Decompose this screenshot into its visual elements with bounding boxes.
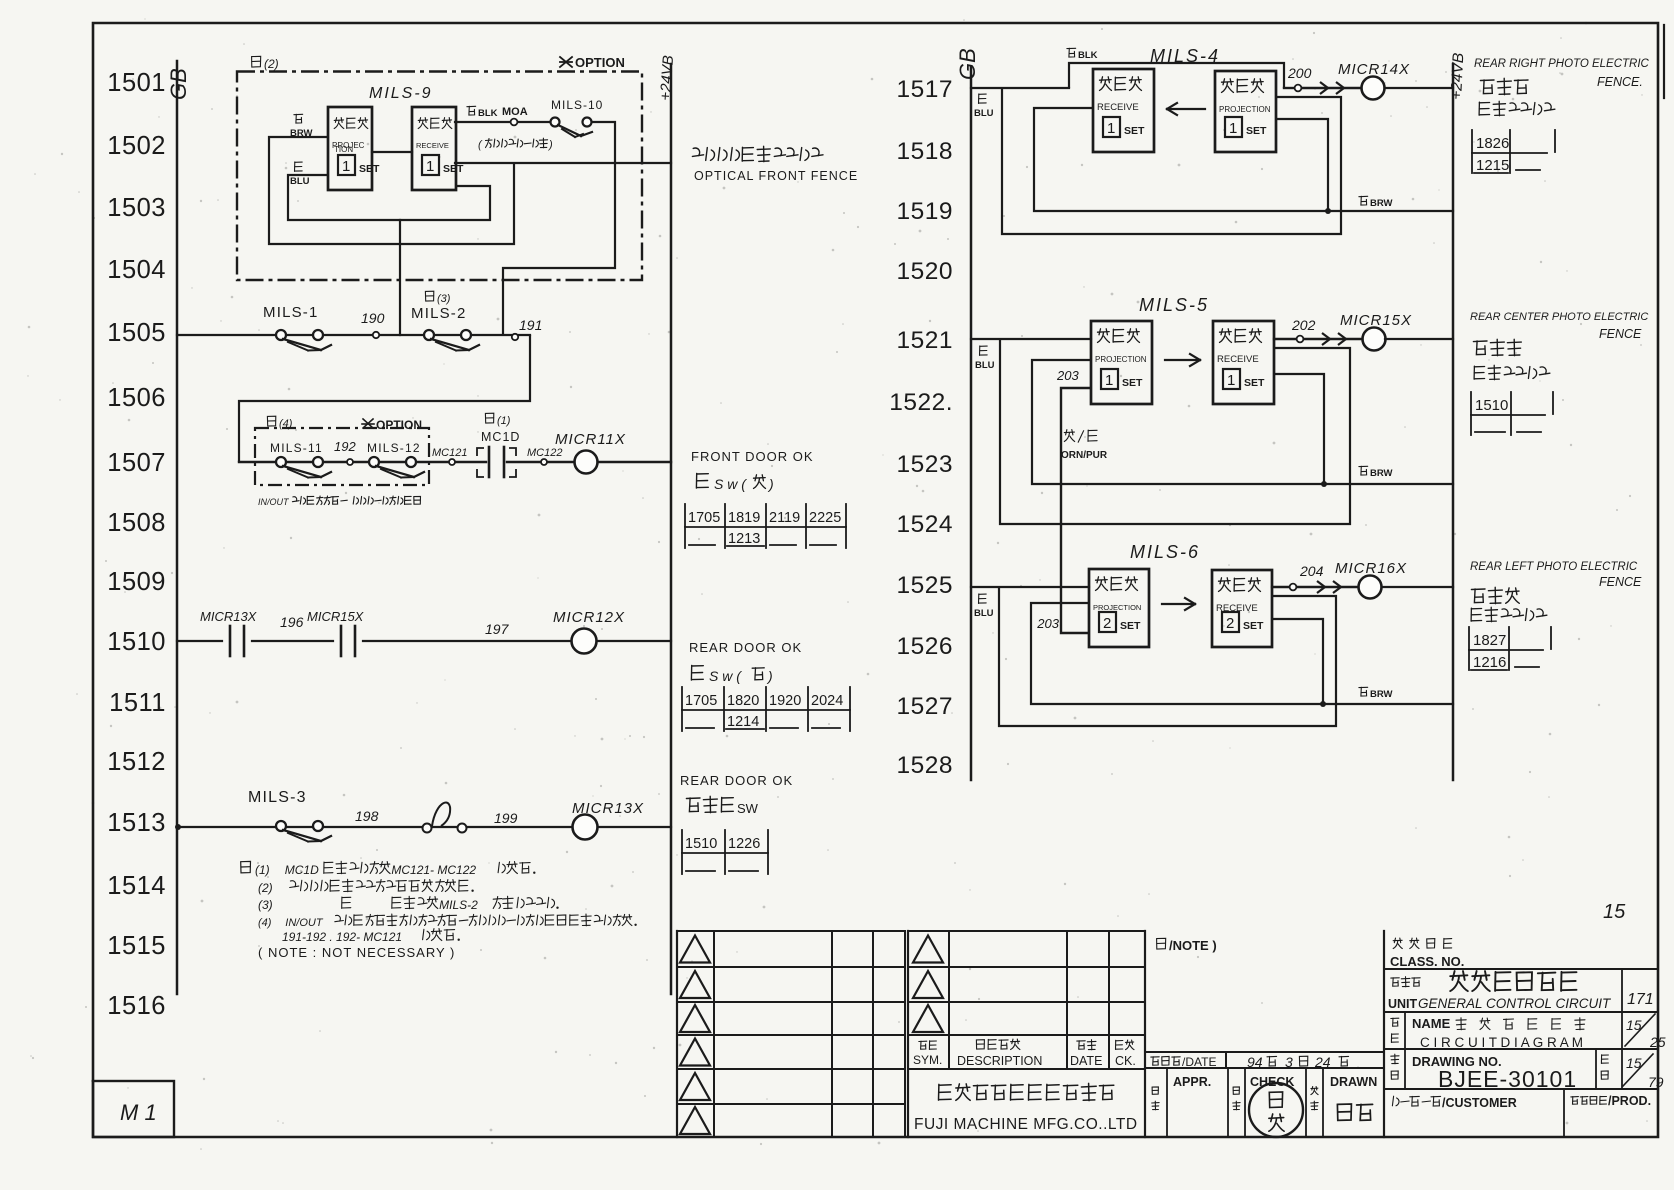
svg-text:FENCE: FENCE [1599, 575, 1642, 589]
header SYM [913, 1041, 942, 1067]
limit switch MILS-3 [248, 789, 331, 842]
svg-text:SET: SET [1124, 125, 1145, 137]
svg-text:1518: 1518 [896, 138, 953, 165]
svg-text:1705: 1705 [685, 693, 717, 709]
relay coil MICR13X [572, 800, 644, 840]
row label 1513 [107, 809, 166, 837]
revision table left [677, 931, 905, 1137]
svg-text:FENCE: FENCE [1599, 327, 1642, 341]
cross reference table rear door 2 [682, 830, 768, 874]
svg-text:APPR.: APPR. [1173, 1075, 1211, 1089]
svg-text:1510: 1510 [685, 836, 717, 852]
svg-text:190: 190 [361, 310, 385, 326]
wire rung 1505 to rung 1507 [239, 335, 530, 462]
relay coil MICR15X [1340, 312, 1412, 351]
node 200 [1287, 65, 1312, 91]
note line 4 [258, 914, 637, 929]
svg-text:1502: 1502 [107, 132, 166, 160]
svg-text:(1): (1) [255, 863, 270, 877]
row label 1528 [896, 752, 953, 779]
svg-text:197: 197 [485, 621, 510, 637]
svg-text:BRW: BRW [1370, 198, 1393, 209]
svg-text:(4): (4) [279, 418, 293, 430]
power rail +24VB left [657, 55, 677, 994]
note label 注(2) [252, 56, 279, 71]
svg-text:BLK: BLK [1078, 50, 1098, 61]
note line 5 [282, 929, 460, 944]
svg-text:1705: 1705 [688, 510, 720, 526]
wire BLK receive to MILS-10 [455, 121, 550, 123]
node 203 MILS-5 [1056, 368, 1079, 383]
wire coil MICR14X to +24VB [1385, 87, 1453, 89]
svg-text:(3): (3) [437, 293, 451, 305]
svg-text:1819: 1819 [728, 510, 760, 526]
svg-text:FUJI MACHINE MFG.CO..LTD: FUJI MACHINE MFG.CO..LTD [914, 1116, 1138, 1133]
svg-text:1508: 1508 [107, 509, 166, 537]
wire inner loop MILS-5 [1032, 360, 1324, 484]
wire MILS-10 down to node 191 [503, 122, 615, 335]
wire label 青BLU MILS-4 [974, 94, 994, 119]
ground rail GB left [166, 61, 191, 994]
net label rear right photo electric fence [1474, 58, 1650, 116]
svg-text:PROJECTION: PROJECTION [1095, 355, 1147, 364]
cross reference table front door [685, 504, 846, 548]
svg-text:1827: 1827 [1473, 632, 1506, 649]
svg-text:DATE: DATE [1070, 1054, 1102, 1068]
wire label 黒BLK [467, 106, 498, 119]
svg-text:BRW: BRW [1370, 689, 1393, 700]
svg-text:BRW: BRW [1370, 468, 1393, 479]
wire BLU loop [288, 175, 490, 220]
sensor unit label MILS-9 [369, 85, 433, 102]
note label actuator [478, 138, 553, 151]
ground rail GB right [955, 48, 980, 780]
svg-text:25: 25 [1649, 1034, 1666, 1050]
svg-text:MILS-5: MILS-5 [1139, 295, 1209, 315]
svg-text:PROJECTION: PROJECTION [1093, 603, 1141, 612]
svg-text:MC1D: MC1D [481, 430, 520, 444]
sensor unit label MILS-5 [1139, 295, 1209, 315]
svg-text:/CUSTOMER: /CUSTOMER [1442, 1096, 1517, 1110]
svg-text:C I R C U I T D I A G R A M: C I R C U I T D I A G R A M [1420, 1035, 1583, 1050]
svg-text:1215: 1215 [1476, 157, 1509, 174]
header CK [1115, 1040, 1136, 1068]
svg-text:1519: 1519 [896, 198, 953, 225]
node 190 [361, 310, 385, 338]
node 196 [280, 614, 304, 630]
svg-text:MILS-10: MILS-10 [551, 98, 603, 112]
svg-text:( NOTE : NOT NECESSARY ): ( NOTE : NOT NECESSARY ) [258, 945, 455, 960]
svg-text:S w (: S w ( [714, 476, 747, 492]
svg-text:BLU: BLU [975, 360, 995, 371]
svg-text:1514: 1514 [107, 872, 166, 900]
svg-text:1503: 1503 [107, 194, 166, 222]
note cell 注/NOTE [1157, 938, 1217, 953]
limit switch MILS-10 [551, 98, 604, 137]
svg-text:1504: 1504 [107, 256, 166, 284]
svg-text:MC121- MC122: MC121- MC122 [391, 863, 476, 877]
svg-text:SET: SET [359, 163, 380, 175]
svg-text:1515: 1515 [107, 932, 166, 960]
svg-text:BLU: BLU [974, 608, 994, 619]
svg-text:MILS-9: MILS-9 [369, 85, 433, 102]
wire rung 1505 [177, 334, 530, 336]
net label rear center photo electric fence [1470, 311, 1648, 380]
svg-text:+24VB: +24VB [1448, 52, 1467, 100]
node 191 [512, 317, 543, 340]
row label 1505 [107, 319, 166, 347]
svg-text:2: 2 [1226, 615, 1234, 632]
header DATE [1070, 1040, 1102, 1068]
svg-text:2024: 2024 [811, 693, 843, 709]
svg-text:198: 198 [355, 808, 379, 824]
svg-text:1522.: 1522. [889, 389, 953, 416]
svg-text:MICR13X: MICR13X [200, 609, 258, 624]
photo sensor projection block MILS-4 [1215, 71, 1276, 152]
svg-text:191: 191 [519, 317, 542, 333]
node 202 [1291, 317, 1316, 342]
svg-text:1: 1 [1229, 120, 1237, 137]
option label row 1507 [362, 418, 422, 432]
row label 1506 [107, 384, 166, 412]
svg-text:202: 202 [1291, 317, 1316, 333]
node 199 [494, 810, 518, 826]
svg-text:200: 200 [1287, 65, 1312, 81]
svg-text:SET: SET [1120, 620, 1141, 632]
svg-text:OPTION: OPTION [575, 55, 625, 70]
svg-text:MICR11X: MICR11X [555, 431, 626, 448]
svg-text:MILS-6: MILS-6 [1130, 542, 1200, 562]
cross reference rear center [1471, 392, 1553, 435]
sheet box M1 [93, 1081, 174, 1137]
svg-text:/DATE: /DATE [1182, 1055, 1216, 1069]
relay coil MICR14X [1338, 61, 1410, 100]
svg-text:(1): (1) [497, 415, 511, 427]
arrow projection to receive MILS-5 [1165, 354, 1200, 366]
svg-text:SET: SET [1246, 125, 1267, 137]
note label 注(1) [485, 413, 510, 427]
svg-text:204: 204 [1299, 563, 1324, 579]
svg-text:1511: 1511 [109, 689, 166, 717]
svg-text:1: 1 [342, 158, 350, 175]
limit switch MILS-12 [367, 441, 424, 478]
svg-text:IN/OUT: IN/OUT [285, 917, 324, 929]
row label 1507 [107, 449, 166, 477]
svg-text:2119: 2119 [769, 510, 800, 526]
wire rung 1517 [971, 87, 1069, 89]
class no cell [1384, 938, 1658, 969]
svg-text:REAR DOOR OK: REAR DOOR OK [680, 773, 793, 788]
svg-text:1510: 1510 [1475, 397, 1508, 414]
node 192 [334, 439, 356, 465]
row label 1522 [889, 389, 953, 416]
svg-text:1526: 1526 [896, 633, 953, 660]
row label 1516 [107, 992, 166, 1020]
svg-text:SET: SET [1122, 377, 1143, 389]
svg-text:MILS-2: MILS-2 [411, 305, 467, 322]
date row [1145, 1052, 1384, 1070]
arrow projection to receive MILS-6 [1162, 598, 1195, 610]
relay contact MICR15X [307, 609, 365, 656]
svg-text:1: 1 [1227, 372, 1235, 389]
svg-text:FRONT DOOR OK: FRONT DOOR OK [691, 449, 814, 464]
svg-text:199: 199 [494, 810, 518, 826]
net label rear left photo electric fence [1470, 561, 1642, 622]
svg-text:OPTICAL FRONT FENCE: OPTICAL FRONT FENCE [694, 169, 858, 183]
wire BRW receive to +24VB rail [455, 162, 671, 164]
svg-text:REAR DOOR OK: REAR DOOR OK [689, 640, 802, 655]
row label 1520 [896, 258, 953, 285]
svg-text:1506: 1506 [107, 384, 166, 412]
svg-text:FENCE.: FENCE. [1597, 75, 1643, 89]
svg-text:SET: SET [443, 163, 464, 175]
node MC122 [527, 447, 562, 465]
svg-text:TION: TION [334, 145, 353, 154]
name cell [1384, 1012, 1666, 1050]
node 197 [485, 621, 510, 637]
svg-text:ORN/PUR: ORN/PUR [1061, 450, 1108, 461]
svg-text:1528: 1528 [896, 752, 953, 779]
wire BLU loop MILS-4 [1002, 88, 1341, 234]
note line 1 [241, 861, 536, 877]
svg-text:SET: SET [1243, 620, 1264, 632]
wire rung 1513 [175, 824, 671, 830]
svg-text:REAR CENTER PHOTO ELECTRIC: REAR CENTER PHOTO ELECTRIC [1470, 311, 1648, 323]
node MC121 [432, 447, 467, 465]
photo sensor receive block MILS-5 [1213, 321, 1274, 404]
cross reference rear right [1472, 130, 1555, 174]
row label 1510 [107, 628, 166, 656]
svg-text:1226: 1226 [728, 836, 760, 852]
svg-text:MILS-3: MILS-3 [248, 789, 307, 806]
note line 2 [258, 879, 474, 895]
wire inner loop MILS-6 [1031, 603, 1323, 704]
wire rung 1525 [971, 586, 1089, 588]
header DESCRIPTION [957, 1039, 1042, 1068]
row label 1511 [109, 689, 166, 717]
svg-text:1213: 1213 [728, 531, 760, 547]
arrow projection to receive [1167, 103, 1205, 115]
svg-text:196: 196 [280, 614, 304, 630]
row label 1509 [107, 568, 166, 596]
row label 1524 [896, 511, 953, 538]
svg-text:1: 1 [426, 158, 434, 175]
wire receive to coil MICR15X [1274, 333, 1363, 345]
wire coil MICR16X to +24VB [1382, 586, 1453, 588]
wire label 茶BRW MILS-6 [1359, 687, 1393, 700]
svg-text:1509: 1509 [107, 568, 166, 596]
row label 1501 [107, 69, 166, 97]
svg-text:1214: 1214 [727, 714, 759, 730]
wire BRW MILS-4 to +24VB [1325, 208, 1453, 214]
svg-text:BLU: BLU [290, 176, 310, 187]
svg-text:2: 2 [1103, 615, 1111, 632]
row label 1514 [107, 872, 166, 900]
note label 注(4) [267, 416, 292, 430]
svg-text:1: 1 [1105, 372, 1113, 389]
svg-text:): ) [547, 139, 553, 151]
svg-text:BLU: BLU [974, 108, 994, 119]
svg-text:15: 15 [1603, 901, 1626, 923]
wire from BLU loop down to node 190 [399, 220, 401, 335]
wire coil MICR15X to +24VB [1385, 338, 1453, 340]
relay coil MICR12X [553, 609, 625, 654]
wire receive to coil MICR16X [1272, 581, 1358, 593]
svg-text:1520: 1520 [896, 258, 953, 285]
wire BRW loop projection [269, 137, 514, 244]
svg-text:RECEIVE: RECEIVE [1217, 354, 1259, 365]
svg-text:MILS-12: MILS-12 [367, 441, 421, 455]
page number 15 [1603, 901, 1626, 923]
svg-text:2225: 2225 [809, 510, 841, 526]
wire BLK top MILS-4 [1069, 63, 1284, 88]
row label 1503 [107, 194, 166, 222]
revision table middle [908, 931, 1145, 1137]
limit switch MILS-1 [263, 304, 331, 351]
svg-text:+24VB: +24VB [657, 55, 677, 102]
svg-text:MILS-1: MILS-1 [263, 304, 319, 321]
svg-text:SET: SET [1244, 377, 1265, 389]
wire rung 1521 [971, 338, 1091, 340]
svg-text:(2): (2) [258, 881, 273, 895]
note line 3 [258, 896, 559, 912]
svg-text:MILS-2: MILS-2 [439, 898, 478, 912]
svg-text:1216: 1216 [1473, 654, 1506, 671]
power rail +24VB right [1448, 52, 1467, 780]
svg-text:1826: 1826 [1476, 135, 1509, 152]
photo sensor receive block MILS-9 [412, 107, 464, 190]
svg-text:171: 171 [1627, 991, 1654, 1008]
option label [560, 55, 625, 70]
wire label 茶BRW MILS-5 [1359, 466, 1393, 479]
svg-text:1513: 1513 [107, 809, 166, 837]
svg-text:PROJECTION: PROJECTION [1219, 105, 1271, 114]
unit name cell [1384, 969, 1658, 1012]
wire inner loop MILS-4 [1034, 108, 1328, 211]
svg-text:1527: 1527 [896, 693, 953, 720]
svg-text:1516: 1516 [107, 992, 166, 1020]
svg-text:MILS-11: MILS-11 [270, 441, 323, 455]
interlock plug symbol [423, 803, 467, 833]
svg-text:1510: 1510 [107, 628, 166, 656]
svg-text:BLK: BLK [478, 108, 498, 119]
svg-text:RECEIVE: RECEIVE [1097, 102, 1139, 113]
svg-text:1505: 1505 [107, 319, 166, 347]
sensor unit label MILS-4 [1150, 46, 1220, 66]
node 198 [355, 808, 379, 824]
svg-text:(2): (2) [264, 57, 279, 71]
option enclosure (dash-dot) MILS-9 [237, 72, 642, 281]
node 203 MILS-6 [1036, 616, 1059, 631]
wire label ORN/PUR [1061, 430, 1108, 461]
svg-text:MICR15X: MICR15X [307, 609, 365, 624]
company name cell [914, 1083, 1138, 1133]
wire label 青BLU [290, 162, 310, 187]
limit switch MILS-11 [270, 441, 331, 478]
svg-text:1517: 1517 [896, 76, 953, 103]
sensor unit label MILS-6 [1130, 542, 1200, 562]
svg-text:1507: 1507 [107, 449, 166, 477]
svg-text:1501: 1501 [107, 69, 166, 97]
svg-text:MC121: MC121 [432, 447, 467, 459]
svg-text:192: 192 [334, 439, 356, 454]
relay contact MICR13X [200, 609, 258, 656]
cross reference table rear door [682, 687, 850, 731]
svg-text:CLASS. NO.: CLASS. NO. [1390, 954, 1464, 969]
row label 1515 [107, 932, 166, 960]
wire 203 MILS-5 to MILS-6 [1061, 388, 1091, 633]
cross reference rear left [1469, 627, 1551, 671]
limit switch MILS-2 [411, 305, 479, 351]
svg-text:GB: GB [955, 48, 980, 80]
svg-text:1524: 1524 [896, 511, 953, 538]
svg-text:191-192 . 192- MC121: 191-192 . 192- MC121 [282, 930, 402, 944]
drawing no cell [1384, 1049, 1664, 1092]
svg-text:1: 1 [1107, 120, 1115, 137]
svg-text:203: 203 [1056, 368, 1079, 383]
net label front door ok [691, 449, 814, 492]
note label 注(3) [425, 291, 450, 305]
svg-text:IN/OUT: IN/OUT [258, 497, 290, 507]
contactor coil terminals MC1D [477, 430, 520, 477]
svg-text:1523: 1523 [896, 451, 953, 478]
net label rear door ok 2 [680, 773, 793, 816]
row label 1512 [107, 748, 166, 776]
row label 1519 [896, 198, 953, 225]
svg-text:S w (: S w ( [709, 668, 742, 684]
svg-text:1521: 1521 [896, 327, 953, 354]
row label 1525 [896, 572, 953, 599]
svg-text:CK.: CK. [1115, 1054, 1136, 1068]
node MOA [502, 106, 528, 125]
svg-text:/PROD.: /PROD. [1608, 1094, 1651, 1108]
svg-text:/NOTE ): /NOTE ) [1169, 938, 1217, 953]
row label 1502 [107, 132, 166, 160]
svg-text:SW: SW [737, 801, 759, 816]
row label 1526 [896, 633, 953, 660]
option enclosure (dash-dot) interlock switches [255, 428, 429, 485]
svg-text:OPTION: OPTION [376, 418, 422, 432]
wire label 茶BRW MILS-4 [1359, 196, 1393, 209]
node 204 [1290, 563, 1324, 590]
svg-text:MC122: MC122 [527, 447, 562, 459]
wire label 黒BLK MILS-4 [1067, 48, 1098, 61]
row label 1523 [896, 451, 953, 478]
svg-text:NAME: NAME [1412, 1016, 1451, 1031]
svg-text:MC1D: MC1D [285, 863, 319, 877]
svg-text:M 1: M 1 [120, 1100, 157, 1125]
svg-text:UNIT: UNIT [1388, 997, 1418, 1011]
photo sensor receive block MILS-4 [1093, 69, 1154, 152]
wire rung 1510 [177, 640, 671, 642]
wire receive to coil MICR14X [1284, 82, 1362, 94]
note line 6 [258, 945, 455, 960]
wire rung 1507 [239, 461, 671, 463]
svg-text:GENERAL CONTROL CIRCUIT: GENERAL CONTROL CIRCUIT [1418, 996, 1612, 1011]
svg-text:(4): (4) [258, 917, 272, 929]
row label 1504 [107, 256, 166, 284]
wire label 青BLU MILS-6 [974, 594, 994, 619]
svg-text:1920: 1920 [769, 693, 801, 709]
wire between projection and receive [372, 151, 412, 153]
drawn signature [1337, 1104, 1372, 1120]
row label 1521 [896, 327, 953, 354]
customer cell [1392, 1089, 1651, 1137]
approval row [1152, 931, 1384, 1137]
photo sensor projection block MILS-9 [328, 107, 380, 190]
svg-text:1512: 1512 [107, 748, 166, 776]
svg-text:GB: GB [166, 68, 191, 100]
